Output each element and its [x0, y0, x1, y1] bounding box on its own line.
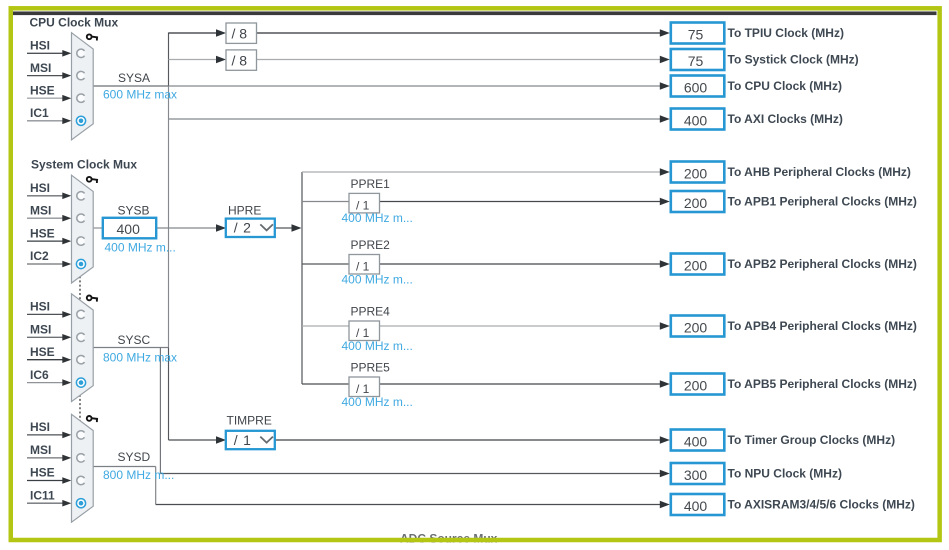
- input label HSE of mux M1 CPU: [30, 83, 55, 97]
- mux M4 SYSD lock key icon: [87, 416, 98, 422]
- svg-text:HSE: HSE: [30, 83, 55, 97]
- output value box 200 (To AHB Peripheral Clocks (MHz)): [671, 162, 725, 183]
- radio button HSI pin of mux M1 CPU: [77, 49, 85, 57]
- radio button HSE pin of mux M2 System: [77, 237, 85, 245]
- svg-text:400: 400: [684, 112, 708, 128]
- svg-text:800 MHz m...: 800 MHz m...: [103, 468, 174, 482]
- blue label 400 MHz m... under PPRE2: [342, 272, 413, 286]
- wire from /8 divider D2 to Systick output: [257, 56, 670, 64]
- divider box PPRE2 /1: [349, 255, 380, 275]
- wire input IC2 to mux M2 System: [27, 261, 71, 268]
- svg-text:SYSB: SYSB: [118, 204, 150, 218]
- input label MSI of mux M3 SYSC: [30, 323, 51, 337]
- mux M3 SYSC lock key icon: [87, 296, 98, 302]
- output value box 300 (To NPU Clock (MHz)): [671, 463, 725, 484]
- radio button IC2 pin of mux M2 System: [76, 259, 85, 268]
- radio button IC1 pin of mux M1 CPU: [76, 116, 85, 125]
- output label To APB5 Peripheral Clocks (MHz): [728, 377, 917, 391]
- svg-text:/ 1: / 1: [234, 432, 252, 448]
- radio button HSI pin of mux M3 SYSC: [77, 310, 85, 318]
- mux M1 CPU lock key icon: [87, 34, 98, 40]
- svg-text:To NPU Clock (MHz): To NPU Clock (MHz): [728, 467, 842, 481]
- combo box TIMPRE /1: [226, 431, 275, 449]
- svg-text:600 MHz max: 600 MHz max: [103, 88, 177, 102]
- wire SYSD vertical drop: [155, 467, 157, 505]
- value box SYSB 400: [103, 218, 156, 239]
- output value box 400 (To AXI Clocks (MHz)): [671, 109, 725, 130]
- svg-text:HSI: HSI: [30, 181, 50, 195]
- wire input MSI to mux M2 System: [27, 215, 71, 222]
- svg-text:To TPIU Clock (MHz): To TPIU Clock (MHz): [728, 26, 844, 40]
- svg-text:200: 200: [684, 165, 708, 181]
- input label IC2 of mux M2 System: [30, 249, 49, 263]
- svg-text:300: 300: [684, 467, 708, 483]
- divider box PPRE4 /1: [349, 321, 380, 341]
- wire input IC11 to mux M4 SYSD: [27, 500, 71, 507]
- mux M4 SYSD body: [72, 414, 94, 522]
- svg-text:200: 200: [684, 195, 708, 211]
- svg-text:400 MHz m...: 400 MHz m...: [342, 272, 413, 286]
- wire PPRE2 line to APB2 output: [302, 260, 670, 268]
- svg-text:PPRE4: PPRE4: [351, 305, 391, 319]
- svg-text:200: 200: [684, 257, 708, 273]
- output label To NPU Clock (MHz): [728, 467, 842, 481]
- mux M2 System body: [72, 175, 94, 283]
- input label HSI of mux M4 SYSD: [30, 420, 50, 434]
- wire to /8 divider D1 (TPIU branch): [169, 29, 227, 37]
- wire SYSA from CPU mux to main vertical: [93, 85, 168, 87]
- clipped section title ADC Source Mux: [400, 532, 498, 546]
- wire input HSI to mux M1 CPU: [27, 50, 71, 57]
- svg-text:To APB5 Peripheral Clocks (MHz: To APB5 Peripheral Clocks (MHz): [728, 377, 917, 391]
- blue label 400 MHz m... under PPRE1: [342, 211, 413, 225]
- svg-text:SYSA: SYSA: [118, 71, 150, 85]
- svg-text:400 MHz m...: 400 MHz m...: [342, 211, 413, 225]
- wire input MSI to mux M4 SYSD: [27, 455, 71, 462]
- svg-text:HSI: HSI: [30, 420, 50, 434]
- label PPRE5: [351, 361, 391, 375]
- svg-text:MSI: MSI: [30, 443, 51, 457]
- svg-text:/ 2: / 2: [234, 220, 252, 236]
- svg-text:75: 75: [688, 26, 704, 42]
- dotted gang link mux2-mux3: [79, 272, 81, 301]
- label PPRE2: [351, 238, 391, 252]
- svg-text:HSE: HSE: [30, 466, 55, 480]
- mux M2 System lock key icon: [87, 177, 98, 183]
- svg-text:400: 400: [684, 433, 708, 449]
- divider box PPRE5 /1: [349, 377, 380, 397]
- svg-text:SYSD: SYSD: [118, 450, 151, 464]
- section title CPU Clock Mux: [30, 16, 119, 30]
- svg-text:To AHB Peripheral Clocks (MHz): To AHB Peripheral Clocks (MHz): [728, 165, 911, 179]
- wire input HSE to mux M2 System: [27, 238, 71, 245]
- svg-text:To APB2 Peripheral Clocks (MHz: To APB2 Peripheral Clocks (MHz): [728, 257, 917, 271]
- blue label 800 MHz m...: [103, 468, 174, 482]
- output label To CPU Clock (MHz): [728, 79, 842, 93]
- output value box 600 (To CPU Clock (MHz)): [671, 76, 725, 97]
- wire SYSC from mux3 to main vertical: [93, 347, 168, 349]
- wire input IC6 to mux M3 SYSC: [27, 379, 71, 386]
- blue label 400 MHz m... under SYSB: [105, 241, 176, 255]
- wire AXI clock line: [169, 115, 670, 123]
- svg-text:200: 200: [684, 319, 708, 335]
- label HPRE: [228, 204, 261, 218]
- svg-text:MSI: MSI: [30, 61, 51, 75]
- wire input HSE to mux M4 SYSD: [27, 477, 71, 484]
- svg-text:IC2: IC2: [30, 249, 49, 263]
- wire SYSB box to HPRE divider: [156, 224, 226, 232]
- output value box 200 (To APB4 Peripheral Clocks (MHz)): [671, 316, 725, 337]
- svg-text:To APB4 Peripheral Clocks (MHz: To APB4 Peripheral Clocks (MHz): [728, 319, 917, 333]
- radio button MSI pin of mux M1 CPU: [77, 71, 85, 79]
- wire input HSI to mux M2 System: [27, 193, 71, 200]
- wire PPRE1 line to APB1 output: [302, 198, 670, 206]
- output label To APB4 Peripheral Clocks (MHz): [728, 319, 917, 333]
- input label HSE of mux M3 SYSC: [30, 345, 55, 359]
- svg-text:400 MHz m...: 400 MHz m...: [342, 395, 413, 409]
- wire PPRE5 line to APB5 output: [302, 380, 670, 388]
- blue label 400 MHz m... under PPRE4: [342, 339, 413, 353]
- svg-text:SYSC: SYSC: [118, 333, 151, 347]
- svg-text:HSE: HSE: [30, 345, 55, 359]
- radio button HSE pin of mux M1 CPU: [77, 94, 85, 102]
- wire input HSI to mux M3 SYSC: [27, 311, 71, 318]
- svg-text:PPRE1: PPRE1: [351, 177, 391, 191]
- wire main vertical bus x=168.5 (dark segment SYSC to TIMPRE): [168, 348, 170, 441]
- svg-text:MSI: MSI: [30, 203, 51, 217]
- output label To AXISRAM3/4/5/6 Clocks (MHz): [728, 498, 915, 512]
- svg-text:400: 400: [117, 221, 141, 237]
- svg-text:HSI: HSI: [30, 39, 50, 53]
- section title System Clock Mux: [31, 158, 137, 172]
- wire NPU vertical drop from SYSC: [159, 348, 161, 474]
- svg-text:IC6: IC6: [30, 368, 49, 382]
- svg-text:To CPU Clock (MHz): To CPU Clock (MHz): [728, 79, 842, 93]
- radio button HSI pin of mux M2 System: [77, 192, 85, 200]
- output label To AHB Peripheral Clocks (MHz): [728, 165, 911, 179]
- svg-text:MSI: MSI: [30, 323, 51, 337]
- svg-text:200: 200: [684, 377, 708, 393]
- svg-text:To Timer Group Clocks (MHz): To Timer Group Clocks (MHz): [728, 433, 896, 447]
- label SYSD: [118, 450, 151, 464]
- input label HSI of mux M1 CPU: [30, 39, 50, 53]
- input label IC11 of mux M4 SYSD: [30, 488, 55, 502]
- label TIMPRE: [227, 414, 272, 428]
- divider box D2 /8: [226, 50, 257, 70]
- radio button HSE pin of mux M3 SYSC: [77, 356, 85, 364]
- divider box D1 /8: [226, 23, 257, 43]
- blue label 800 MHz max: [103, 351, 177, 365]
- svg-text:600: 600: [684, 79, 708, 95]
- radio button MSI pin of mux M4 SYSD: [77, 454, 85, 462]
- input label MSI of mux M1 CPU: [30, 61, 51, 75]
- svg-text:CPU Clock Mux: CPU Clock Mux: [30, 16, 119, 30]
- svg-text:75: 75: [688, 53, 704, 69]
- label SYSC: [118, 333, 151, 347]
- radio button MSI pin of mux M3 SYSC: [77, 333, 85, 341]
- divider box PPRE1 /1: [349, 193, 380, 213]
- output value box 400 (To Timer Group Clocks (MHz)): [671, 430, 725, 451]
- output label To Systick Clock (MHz): [728, 53, 859, 67]
- output value box 400 (To AXISRAM3/4/5/6 Clocks (MHz)): [671, 494, 725, 515]
- input label HSI of mux M3 SYSC: [30, 300, 50, 314]
- label PPRE1: [351, 177, 391, 191]
- input label IC1 of mux M1 CPU: [30, 106, 49, 120]
- top dark separator bar: [13, 11, 937, 15]
- wire from /8 divider D1 to TPIU output: [257, 29, 670, 37]
- wire main vertical bus x=169 (dark upper part): [168, 33, 170, 87]
- wire peripheral bus vertical x=302: [301, 172, 303, 384]
- svg-text:TIMPRE: TIMPRE: [227, 414, 272, 428]
- wire input HSE to mux M1 CPU: [27, 95, 71, 102]
- output value box 200 (To APB1 Peripheral Clocks (MHz)): [671, 191, 725, 212]
- wire input HSI to mux M4 SYSD: [27, 432, 71, 439]
- input label MSI of mux M2 System: [30, 203, 51, 217]
- output label To AXI Clocks (MHz): [728, 112, 843, 126]
- radio button MSI pin of mux M2 System: [77, 214, 85, 222]
- radio button IC6 pin of mux M3 SYSC: [76, 378, 85, 387]
- svg-text:To AXISRAM3/4/5/6 Clocks (MHz): To AXISRAM3/4/5/6 Clocks (MHz): [728, 498, 915, 512]
- svg-text:To Systick Clock (MHz): To Systick Clock (MHz): [728, 53, 859, 67]
- svg-text:/ 8: / 8: [232, 53, 248, 69]
- radio button HSE pin of mux M4 SYSD: [77, 476, 85, 484]
- input label MSI of mux M4 SYSD: [30, 443, 51, 457]
- mux M1 CPU body: [72, 33, 94, 140]
- wire main vertical bus x=169 (gray lower part): [168, 86, 170, 348]
- svg-text:800 MHz max: 800 MHz max: [103, 351, 177, 365]
- wire HPRE to peripheral bus vertical: [275, 224, 302, 232]
- wire input HSE to mux M3 SYSC: [27, 356, 71, 363]
- svg-text:400 MHz m...: 400 MHz m...: [342, 339, 413, 353]
- blue label 600 MHz max: [103, 88, 177, 102]
- svg-text:To AXI Clocks (MHz): To AXI Clocks (MHz): [728, 112, 843, 126]
- wire PPRE4 line to APB4 output: [302, 322, 670, 330]
- wire SYSD from mux4: [93, 466, 156, 468]
- radio button IC11 pin of mux M4 SYSD: [76, 499, 85, 508]
- radio button HSI pin of mux M4 SYSD: [77, 431, 85, 439]
- output value box 200 (To APB5 Peripheral Clocks (MHz)): [671, 374, 725, 395]
- label PPRE4: [351, 305, 391, 319]
- wire SYSB mux output stub: [93, 227, 103, 229]
- svg-text:PPRE5: PPRE5: [351, 361, 391, 375]
- wire from TIMPRE divider to Timer Group output: [275, 436, 670, 444]
- input label HSE of mux M2 System: [30, 226, 55, 240]
- input label IC6 of mux M3 SYSC: [30, 368, 49, 382]
- wire input MSI to mux M1 CPU: [27, 72, 71, 79]
- wire input MSI to mux M3 SYSC: [27, 334, 71, 341]
- svg-text:IC11: IC11: [30, 488, 55, 502]
- label SYSA: [118, 71, 150, 85]
- wire input IC1 to mux M1 CPU: [27, 118, 71, 125]
- output label To TPIU Clock (MHz): [728, 26, 844, 40]
- svg-text:400: 400: [684, 498, 708, 514]
- output value box 75 (To Systick Clock (MHz)): [671, 49, 725, 70]
- svg-text:HSI: HSI: [30, 300, 50, 314]
- wire AXISRAM clock line: [156, 501, 670, 509]
- svg-text:PPRE2: PPRE2: [351, 238, 391, 252]
- combo box HPRE /2: [226, 219, 275, 237]
- output label To APB2 Peripheral Clocks (MHz): [728, 257, 917, 271]
- dotted gang link mux3-mux4: [79, 391, 81, 423]
- input label HSI of mux M2 System: [30, 181, 50, 195]
- wire CPU clock line: [169, 82, 670, 90]
- label SYSB: [118, 204, 150, 218]
- output label To Timer Group Clocks (MHz): [728, 433, 896, 447]
- svg-text:HSE: HSE: [30, 226, 55, 240]
- svg-text:IC1: IC1: [30, 106, 49, 120]
- svg-text:To APB1 Peripheral Clocks (MHz: To APB1 Peripheral Clocks (MHz): [728, 195, 917, 209]
- svg-text:System Clock Mux: System Clock Mux: [31, 158, 137, 172]
- mux M3 SYSC body: [72, 294, 94, 402]
- wire TIMPRE feed (corner of main vertical) to TIMPRE divider: [169, 436, 227, 444]
- output label To APB1 Peripheral Clocks (MHz): [728, 195, 917, 209]
- input label HSE of mux M4 SYSD: [30, 466, 55, 480]
- wire to /8 divider D2 (Systick branch): [169, 56, 227, 64]
- output value box 200 (To APB2 Peripheral Clocks (MHz)): [671, 254, 725, 275]
- output value box 75 (To TPIU Clock (MHz)): [671, 23, 725, 44]
- blue label 400 MHz m... under PPRE5: [342, 395, 413, 409]
- svg-text:HPRE: HPRE: [228, 204, 261, 218]
- wire NPU clock line: [160, 470, 669, 478]
- svg-text:/ 8: / 8: [232, 26, 248, 42]
- svg-text:400 MHz m...: 400 MHz m...: [105, 241, 176, 255]
- wire AHB clock line: [302, 168, 670, 176]
